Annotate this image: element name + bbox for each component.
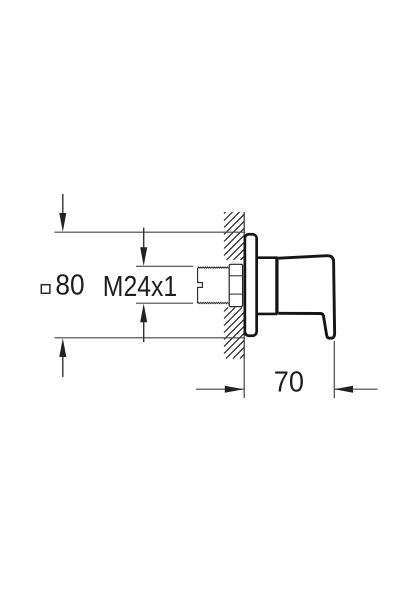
threaded spindle body bbox=[198, 267, 229, 304]
extension line wall bbox=[243, 359, 245, 399]
handle joint line bbox=[275, 257, 278, 315]
svg-text:80: 80 bbox=[55, 270, 84, 302]
arrow 80 bottom bbox=[59, 338, 66, 377]
extension line handle tip bbox=[333, 341, 335, 398]
arrow M24 bottom bbox=[140, 304, 147, 343]
wall surface line bbox=[243, 212, 245, 359]
handle lever bbox=[279, 256, 335, 339]
svg-text:70: 70 bbox=[274, 367, 304, 399]
dimension line M24 bottom bbox=[136, 302, 193, 304]
arrow 80 top bbox=[59, 194, 66, 232]
arrow 70 right bbox=[334, 386, 353, 393]
handle hub bbox=[257, 258, 278, 314]
svg-text:M24x1: M24x1 bbox=[103, 271, 177, 303]
dimension line 80 top bbox=[55, 231, 245, 233]
escutcheon plate bbox=[245, 234, 257, 336]
dimension line 70 left segment bbox=[196, 388, 244, 390]
dimension line 80 bottom bbox=[55, 337, 245, 339]
dimension line M24 top bbox=[136, 265, 193, 267]
label square symbol bbox=[41, 285, 50, 294]
arrow M24 top bbox=[140, 228, 147, 266]
dimension line 70 right segment bbox=[334, 388, 377, 390]
arrow 70 left bbox=[225, 386, 244, 393]
wall hatch lower block bbox=[224, 308, 244, 359]
locking nut bbox=[229, 264, 242, 306]
wall hatch upper block bbox=[224, 212, 244, 260]
